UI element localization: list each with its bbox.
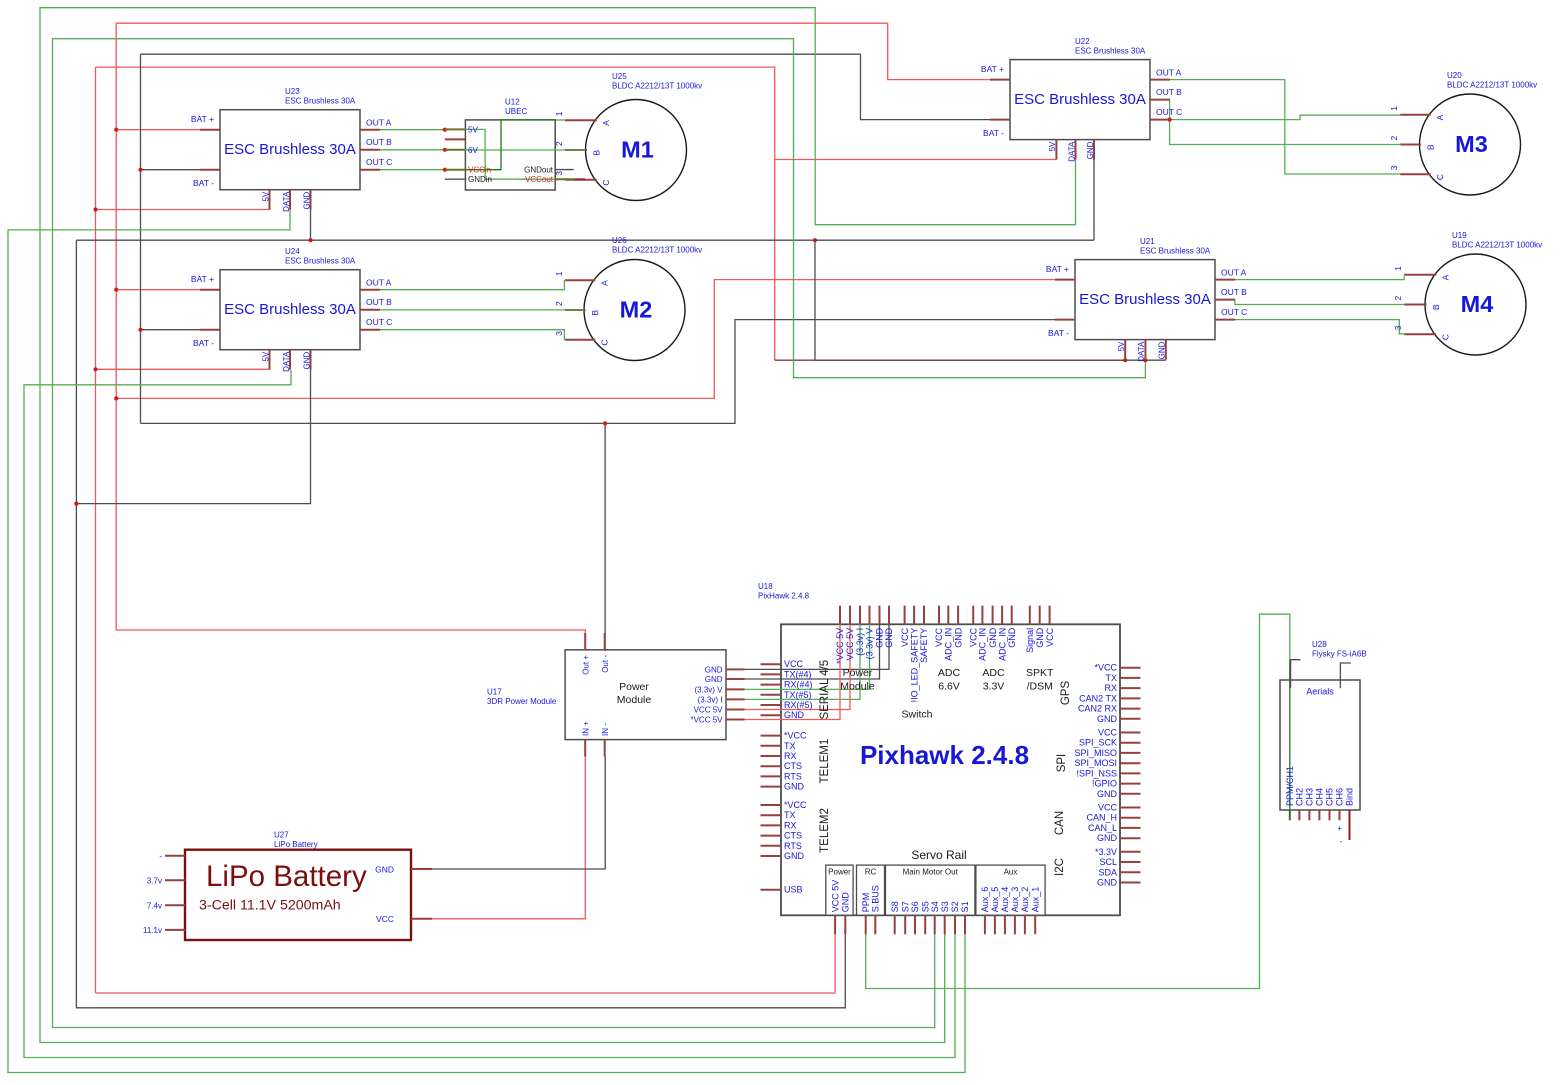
svg-text:S3: S3 bbox=[940, 901, 950, 912]
svg-text:CH2: CH2 bbox=[1295, 788, 1305, 806]
receiver PPM/CH1 pin stub bbox=[1289, 810, 1291, 820]
svg-text:GND: GND bbox=[1035, 627, 1045, 648]
motor M1 pin 3 stub bbox=[565, 179, 597, 181]
motor M4 pin 1 stub bbox=[1404, 274, 1436, 276]
svg-text:A: A bbox=[1441, 274, 1451, 280]
svg-text:CAN_L: CAN_L bbox=[1088, 823, 1117, 833]
svg-text:SAFETY: SAFETY bbox=[919, 628, 929, 663]
svg-text:M2: M2 bbox=[620, 297, 653, 323]
wire U23 OUT B / UBEC 6V to motor M1 pin B (green) bbox=[380, 148, 585, 152]
svg-text:OUT B: OUT B bbox=[1156, 87, 1182, 97]
svg-text:CH4: CH4 bbox=[1315, 788, 1325, 806]
svg-text:*VCC 5V: *VCC 5V bbox=[835, 628, 845, 664]
svg-text:B: B bbox=[1426, 144, 1436, 150]
svg-text:2: 2 bbox=[554, 141, 564, 146]
svg-text:GND: GND bbox=[953, 627, 963, 648]
svg-text:A: A bbox=[1435, 114, 1445, 120]
svg-text:ESC Brushless 30A: ESC Brushless 30A bbox=[285, 257, 356, 266]
wires U21 OUT A/B/C to motor M4 (green) bbox=[1235, 275, 1404, 334]
svg-text:Bind: Bind bbox=[1345, 788, 1355, 806]
svg-text:DATA: DATA bbox=[282, 191, 291, 212]
svg-text:VCC: VCC bbox=[1098, 728, 1118, 738]
svg-text:VCC: VCC bbox=[1098, 803, 1118, 813]
svg-text:3: 3 bbox=[1393, 325, 1403, 330]
svg-text:DATA: DATA bbox=[1137, 341, 1146, 362]
wire UBEC 5V to VCCout (green, inside box) bbox=[465, 129, 555, 179]
svg-text:6V: 6V bbox=[468, 146, 478, 155]
ESC U21 box bbox=[1075, 260, 1215, 340]
svg-text:TX: TX bbox=[1105, 673, 1117, 683]
svg-text:GND: GND bbox=[1158, 341, 1167, 359]
wires U24 OUT A/B/C to motor M2 (green) bbox=[380, 281, 584, 340]
svg-text:!GPIO: !GPIO bbox=[1092, 779, 1117, 789]
svg-text:S4: S4 bbox=[930, 901, 940, 912]
svg-text:SPI_SCK: SPI_SCK bbox=[1079, 738, 1117, 748]
ESC U22 box bbox=[1010, 60, 1150, 140]
svg-text:GPS: GPS bbox=[1060, 681, 1072, 706]
svg-text:3.3V: 3.3V bbox=[983, 681, 1005, 693]
svg-text:Power: Power bbox=[619, 681, 649, 693]
svg-text:UBEC: UBEC bbox=[505, 107, 527, 116]
svg-text:U21: U21 bbox=[1140, 237, 1155, 246]
svg-text:RTS: RTS bbox=[784, 841, 802, 851]
svg-text:Module: Module bbox=[617, 694, 652, 706]
svg-text:GNDout: GNDout bbox=[524, 166, 554, 175]
svg-text:5V: 5V bbox=[261, 191, 270, 201]
wire net PPM Pixhawk to receiver PPM/CH1 (green) bbox=[866, 614, 1290, 988]
3DR Power Module U17 box bbox=[565, 650, 726, 740]
svg-text:VCCin: VCCin bbox=[468, 166, 491, 175]
svg-text:A: A bbox=[601, 120, 611, 126]
motor M3 pin 2 stub bbox=[1400, 144, 1421, 146]
svg-text:U25: U25 bbox=[612, 72, 627, 81]
svg-text:-: - bbox=[1339, 837, 1342, 846]
svg-text:SPI_MISO: SPI_MISO bbox=[1074, 748, 1117, 758]
wire net S4 Pixhawk to U21 DATA (green) bbox=[53, 39, 1148, 1028]
svg-text:OUT B: OUT B bbox=[366, 137, 392, 147]
svg-text:*VCC 5V: *VCC 5V bbox=[690, 716, 723, 725]
svg-text:S5: S5 bbox=[920, 901, 930, 912]
svg-text:OUT A: OUT A bbox=[366, 278, 392, 288]
svg-text:C: C bbox=[1441, 334, 1451, 340]
svg-text:ADC_IN: ADC_IN bbox=[978, 628, 988, 661]
svg-text:Flysky FS-iA6B: Flysky FS-iA6B bbox=[1312, 650, 1367, 659]
svg-text:U26: U26 bbox=[612, 236, 627, 245]
svg-text:Out +: Out + bbox=[581, 655, 590, 675]
svg-text:ADC_IN: ADC_IN bbox=[997, 628, 1007, 661]
svg-text:IN -: IN - bbox=[601, 723, 610, 736]
svg-text:GND: GND bbox=[1097, 833, 1118, 843]
svg-text:TX(#5): TX(#5) bbox=[784, 690, 812, 700]
wire net BAT+ (battery positive, red) bbox=[114, 23, 1055, 651]
svg-text:M4: M4 bbox=[1461, 291, 1494, 317]
svg-text:GND: GND bbox=[302, 191, 311, 209]
svg-text:ADC_IN: ADC_IN bbox=[944, 628, 954, 661]
svg-text:VCCout: VCCout bbox=[525, 175, 554, 184]
svg-text:PPM: PPM bbox=[861, 893, 871, 913]
svg-text:VCC 5V: VCC 5V bbox=[830, 880, 840, 913]
svg-text:BAT +: BAT + bbox=[191, 274, 214, 284]
svg-text:GND: GND bbox=[302, 351, 311, 369]
svg-text:1: 1 bbox=[1389, 106, 1399, 111]
svg-text:OUT C: OUT C bbox=[1221, 307, 1247, 317]
svg-text:BAT +: BAT + bbox=[1046, 264, 1069, 274]
wires U22 OUT A/B/C to motor M3 (green) bbox=[1168, 80, 1401, 174]
svg-text:!IO_LED_SAFETY: !IO_LED_SAFETY bbox=[909, 628, 919, 703]
svg-text:CH3: CH3 bbox=[1305, 788, 1315, 806]
svg-text:VCC: VCC bbox=[1045, 627, 1055, 647]
svg-text:S8: S8 bbox=[890, 901, 900, 912]
svg-text:RX: RX bbox=[1104, 683, 1117, 693]
svg-text:C: C bbox=[601, 180, 611, 186]
svg-text:BLDC A2212/13T 1000kv: BLDC A2212/13T 1000kv bbox=[612, 82, 702, 91]
svg-text:GND: GND bbox=[1097, 714, 1118, 724]
svg-text:ADC: ADC bbox=[982, 667, 1005, 679]
svg-text:SPI: SPI bbox=[1056, 754, 1068, 773]
svg-text:*3.3V: *3.3V bbox=[1095, 847, 1117, 857]
wire net S1 Pixhawk to U23 DATA (green) bbox=[8, 210, 965, 1073]
svg-text:BAT -: BAT - bbox=[193, 178, 214, 188]
svg-text:OUT A: OUT A bbox=[366, 118, 392, 128]
svg-text:OUT A: OUT A bbox=[1221, 268, 1247, 278]
svg-text:BAT -: BAT - bbox=[1048, 328, 1069, 338]
svg-text:TELEM2: TELEM2 bbox=[819, 808, 831, 853]
motor M2 pin 2 stub bbox=[565, 309, 586, 311]
ESC U21 pin stubs bbox=[1055, 279, 1075, 281]
svg-text:3DR Power Module: 3DR Power Module bbox=[487, 697, 557, 706]
motor M1 pin 2 stub bbox=[565, 149, 587, 151]
svg-text:Signal: Signal bbox=[1025, 628, 1035, 653]
svg-text:PixHawk 2.4.8: PixHawk 2.4.8 bbox=[758, 592, 810, 601]
svg-text:1: 1 bbox=[554, 271, 564, 276]
svg-text:+: + bbox=[1337, 824, 1342, 833]
svg-text:PPM/CH1: PPM/CH1 bbox=[1285, 766, 1295, 806]
motor M4 (U19) body bbox=[1425, 254, 1526, 355]
svg-text:VCC 5V: VCC 5V bbox=[845, 628, 855, 661]
svg-text:Servo Rail: Servo Rail bbox=[911, 848, 966, 862]
svg-text:U20: U20 bbox=[1447, 71, 1462, 80]
svg-text:TELEM1: TELEM1 bbox=[819, 739, 831, 784]
motor M3 pin 1 stub bbox=[1400, 114, 1431, 116]
svg-text:*VCC: *VCC bbox=[1094, 663, 1117, 673]
svg-text:VCC: VCC bbox=[900, 627, 910, 647]
svg-text:U27: U27 bbox=[274, 831, 289, 840]
svg-text:OUT C: OUT C bbox=[1156, 107, 1182, 117]
wire battery VCC to power module IN+ (red) bbox=[432, 756, 585, 919]
svg-text:DATA: DATA bbox=[1067, 141, 1076, 162]
svg-text:Pixhawk 2.4.8: Pixhawk 2.4.8 bbox=[860, 740, 1029, 770]
svg-text:BLDC A2212/13T 1000kv: BLDC A2212/13T 1000kv bbox=[1447, 81, 1537, 90]
motor M3 pin 3 stub bbox=[1400, 173, 1431, 175]
svg-text:ESC Brushless 30A: ESC Brushless 30A bbox=[1140, 247, 1211, 256]
receiver antenna right bbox=[1340, 663, 1350, 688]
svg-text:ESC Brushless 30A: ESC Brushless 30A bbox=[285, 97, 356, 106]
svg-text:ESC Brushless 30A: ESC Brushless 30A bbox=[1079, 291, 1211, 308]
svg-text:OUT C: OUT C bbox=[366, 317, 392, 327]
motor M3 (U20) body bbox=[1420, 94, 1521, 195]
svg-text:ESC Brushless 30A: ESC Brushless 30A bbox=[1014, 91, 1146, 108]
svg-text:GND: GND bbox=[1097, 878, 1118, 888]
svg-text:11.1v: 11.1v bbox=[143, 926, 162, 935]
svg-text:SPKT: SPKT bbox=[1026, 667, 1054, 679]
svg-text:RTS: RTS bbox=[784, 771, 802, 781]
svg-text:TX: TX bbox=[784, 810, 796, 820]
svg-text:GND: GND bbox=[1086, 141, 1095, 159]
svg-text:CH6: CH6 bbox=[1335, 788, 1345, 806]
svg-text:C: C bbox=[600, 340, 610, 346]
svg-text:BAT +: BAT + bbox=[981, 64, 1004, 74]
svg-text:Aux_4: Aux_4 bbox=[1000, 887, 1010, 913]
Pixhawk left pin stubs bbox=[761, 664, 782, 890]
svg-text:GND: GND bbox=[375, 865, 394, 875]
svg-text:RC: RC bbox=[865, 868, 877, 877]
Pixhawk bottom pin stubs bbox=[835, 915, 1035, 934]
wire U23 OUT A to UBEC 5V (green) bbox=[380, 128, 447, 132]
svg-text:Aux_5: Aux_5 bbox=[990, 887, 1000, 913]
svg-text:S1: S1 bbox=[960, 901, 970, 912]
wire battery GND to power module IN- (dark gray) bbox=[432, 756, 605, 869]
ESC U22 pin stubs bbox=[990, 79, 1010, 81]
receiver Bind pin wire (dark red) bbox=[1349, 810, 1351, 840]
svg-text:Power: Power bbox=[828, 868, 851, 877]
svg-text:5V: 5V bbox=[1117, 341, 1126, 351]
svg-text:GND: GND bbox=[841, 892, 851, 913]
wire net S2 Pixhawk to U24 DATA (green) bbox=[24, 370, 955, 1058]
svg-text:Main Motor Out: Main Motor Out bbox=[903, 868, 959, 877]
svg-text:-: - bbox=[159, 852, 162, 861]
svg-text:Out -: Out - bbox=[601, 655, 610, 673]
Pixhawk servo rail sub-box Power bbox=[826, 865, 853, 915]
svg-text:A: A bbox=[600, 280, 610, 286]
svg-text:U19: U19 bbox=[1452, 231, 1467, 240]
svg-text:Aux_1: Aux_1 bbox=[1030, 887, 1040, 913]
svg-text:(3.3v) V: (3.3v) V bbox=[865, 628, 875, 660]
wire net ESC 5V (red) bbox=[93, 67, 1056, 993]
svg-text:CAN: CAN bbox=[1054, 811, 1066, 835]
svg-text:I2C: I2C bbox=[1054, 858, 1066, 876]
svg-text:3: 3 bbox=[554, 171, 564, 176]
svg-text:GNDin: GNDin bbox=[468, 175, 492, 184]
svg-text:GND: GND bbox=[884, 627, 894, 648]
svg-text:OUT A: OUT A bbox=[1156, 68, 1182, 78]
svg-text:ESC Brushless 30A: ESC Brushless 30A bbox=[224, 141, 356, 158]
svg-text:BAT -: BAT - bbox=[983, 128, 1004, 138]
svg-text:OUT B: OUT B bbox=[1221, 287, 1247, 297]
svg-text:6.6V: 6.6V bbox=[938, 681, 960, 693]
svg-text:USB: USB bbox=[784, 885, 803, 895]
svg-text:(3.3v) I: (3.3v) I bbox=[855, 628, 865, 656]
svg-text:Aux_6: Aux_6 bbox=[980, 887, 990, 913]
LiPo Battery pin stubs bbox=[165, 856, 432, 930]
svg-text:S6: S6 bbox=[910, 901, 920, 912]
svg-text:CAN2 TX: CAN2 TX bbox=[1079, 693, 1117, 703]
wire net BAT- (dark gray) bbox=[138, 54, 1055, 651]
LiPo Battery U27 box bbox=[185, 850, 411, 940]
wire UBEC VCCout to motor M1 pin C (dark red) bbox=[574, 178, 585, 180]
motor M4 pin 3 stub bbox=[1404, 333, 1436, 335]
svg-text:GND: GND bbox=[784, 782, 805, 792]
svg-text:BAT -: BAT - bbox=[193, 338, 214, 348]
svg-text:OUT C: OUT C bbox=[366, 157, 392, 167]
svg-text:GND: GND bbox=[784, 710, 805, 720]
Pixhawk servo rail sub-box Aux bbox=[976, 865, 1045, 915]
svg-text:LiPo Battery: LiPo Battery bbox=[206, 860, 367, 893]
svg-text:U24: U24 bbox=[285, 247, 300, 256]
svg-text:Aux: Aux bbox=[1004, 868, 1018, 877]
Flysky receiver U28 box bbox=[1280, 680, 1360, 810]
3DR Power Module pin stubs bbox=[585, 633, 744, 757]
svg-text:SPI_MOSI: SPI_MOSI bbox=[1074, 758, 1117, 768]
svg-text:3-Cell 11.1V 5200mAh: 3-Cell 11.1V 5200mAh bbox=[199, 898, 341, 914]
svg-text:SERIAL 4/5: SERIAL 4/5 bbox=[819, 660, 831, 720]
svg-text:GND: GND bbox=[875, 627, 885, 648]
svg-text:S7: S7 bbox=[900, 901, 910, 912]
wires power module to Pixhawk power pins bbox=[745, 606, 889, 720]
svg-text:GND: GND bbox=[705, 675, 723, 684]
svg-text:GND: GND bbox=[784, 851, 805, 861]
svg-text:U12: U12 bbox=[505, 98, 520, 107]
svg-text:SCL: SCL bbox=[1099, 857, 1117, 867]
svg-text:ADC: ADC bbox=[938, 667, 961, 679]
svg-text:U22: U22 bbox=[1075, 37, 1090, 46]
receiver bottom pin stubs bbox=[1299, 810, 1339, 820]
svg-text:U17: U17 bbox=[487, 688, 502, 697]
UBEC pin stubs bbox=[445, 128, 466, 130]
Pixhawk top pin stubs bbox=[840, 606, 1050, 625]
motor M2 pin 3 stub bbox=[565, 339, 595, 341]
svg-text:B: B bbox=[592, 150, 602, 156]
motor M2 (U26) body bbox=[584, 260, 685, 361]
Pixhawk servo rail sub-box RC bbox=[857, 865, 885, 915]
svg-text:DATA: DATA bbox=[282, 351, 291, 372]
svg-text:*VCC: *VCC bbox=[784, 800, 807, 810]
svg-text:Aux_3: Aux_3 bbox=[1010, 887, 1020, 913]
svg-text:SDA: SDA bbox=[1098, 867, 1117, 877]
svg-text:B: B bbox=[1431, 304, 1441, 310]
motor M4 pin 2 stub bbox=[1404, 304, 1426, 306]
svg-text:OUT B: OUT B bbox=[366, 297, 392, 307]
svg-text:3.7v: 3.7v bbox=[147, 876, 162, 885]
svg-text:3: 3 bbox=[1389, 165, 1399, 170]
motor M1 (U25) body bbox=[586, 100, 687, 201]
svg-text:S2: S2 bbox=[950, 901, 960, 912]
svg-text:CH5: CH5 bbox=[1325, 788, 1335, 806]
svg-text:(3.3v) V: (3.3v) V bbox=[694, 685, 723, 694]
Pixhawk servo rail sub-box Main Motor Out bbox=[886, 865, 975, 915]
svg-text:RX(#5): RX(#5) bbox=[784, 700, 813, 710]
svg-text:TX(#4): TX(#4) bbox=[784, 669, 812, 679]
svg-text:RX: RX bbox=[784, 820, 797, 830]
receiver antenna left bbox=[1291, 660, 1301, 689]
svg-text:2: 2 bbox=[554, 301, 564, 306]
svg-text:3: 3 bbox=[554, 331, 564, 336]
svg-text:CAN2 RX: CAN2 RX bbox=[1078, 704, 1117, 714]
svg-text:IN +: IN + bbox=[581, 721, 590, 736]
svg-text:GND: GND bbox=[1097, 789, 1118, 799]
svg-text:7.4v: 7.4v bbox=[147, 901, 162, 910]
svg-text:C: C bbox=[1435, 174, 1445, 180]
motor M2 pin 1 stub bbox=[565, 279, 595, 281]
svg-text:5V: 5V bbox=[261, 351, 270, 361]
svg-text:GND: GND bbox=[705, 665, 723, 674]
svg-text:BLDC A2212/13T 1000kv: BLDC A2212/13T 1000kv bbox=[612, 246, 702, 255]
motor M1 pin 1 stub bbox=[565, 119, 597, 121]
svg-text:VCC: VCC bbox=[376, 914, 394, 924]
svg-text:RX(#4): RX(#4) bbox=[784, 680, 813, 690]
wire net GND rail (dark gray) bbox=[74, 160, 1166, 1008]
wire UBEC VCCin to motor M1 pin A (dark green) bbox=[465, 120, 565, 170]
ESC U24 box bbox=[220, 270, 360, 350]
svg-text:Power: Power bbox=[843, 667, 873, 679]
svg-text:!SPI_NSS: !SPI_NSS bbox=[1076, 768, 1117, 778]
svg-text:*VCC: *VCC bbox=[784, 731, 807, 741]
svg-text:Aux_2: Aux_2 bbox=[1020, 887, 1030, 913]
svg-text:GND: GND bbox=[1007, 627, 1017, 648]
svg-text:CTS: CTS bbox=[784, 831, 802, 841]
svg-text:Aerials: Aerials bbox=[1306, 687, 1334, 697]
svg-text:VCC 5V: VCC 5V bbox=[694, 706, 724, 715]
wire U23 OUT C to UBEC VCCin (green) bbox=[380, 168, 447, 172]
svg-text:1: 1 bbox=[1393, 266, 1403, 271]
svg-text:2: 2 bbox=[1389, 136, 1399, 141]
svg-text:U18: U18 bbox=[758, 582, 773, 591]
svg-text:/DSM: /DSM bbox=[1027, 681, 1053, 693]
ESC U24 pin stubs bbox=[200, 289, 220, 291]
Pixhawk U18 box bbox=[781, 624, 1120, 915]
svg-text:U28: U28 bbox=[1312, 640, 1327, 649]
svg-text:CTS: CTS bbox=[784, 761, 802, 771]
svg-text:TX: TX bbox=[784, 741, 796, 751]
svg-text:VCC: VCC bbox=[784, 659, 804, 669]
Pixhawk right pin stubs bbox=[1120, 668, 1141, 883]
svg-text:Module: Module bbox=[840, 681, 875, 693]
svg-text:(3.3v) I: (3.3v) I bbox=[698, 695, 723, 704]
svg-text:1: 1 bbox=[554, 111, 564, 116]
svg-text:LiPo Battery: LiPo Battery bbox=[274, 840, 318, 849]
UBEC U12 box bbox=[465, 120, 555, 190]
svg-text:ESC Brushless 30A: ESC Brushless 30A bbox=[1075, 47, 1146, 56]
svg-text:RX: RX bbox=[784, 751, 797, 761]
wire net S3 Pixhawk to U22 DATA (green) bbox=[40, 8, 1076, 1043]
svg-text:ESC Brushless 30A: ESC Brushless 30A bbox=[224, 301, 356, 318]
svg-text:B: B bbox=[590, 310, 600, 316]
svg-text:GND: GND bbox=[988, 627, 998, 648]
svg-text:CAN_H: CAN_H bbox=[1086, 813, 1117, 823]
svg-text:M3: M3 bbox=[1455, 131, 1488, 157]
svg-text:BLDC A2212/13T 1000kv: BLDC A2212/13T 1000kv bbox=[1452, 241, 1542, 250]
svg-text:BAT +: BAT + bbox=[191, 114, 214, 124]
svg-text:5V: 5V bbox=[1048, 141, 1057, 151]
svg-text:5V: 5V bbox=[468, 125, 478, 134]
svg-text:U23: U23 bbox=[285, 87, 300, 96]
svg-text:Switch: Switch bbox=[902, 709, 933, 721]
svg-text:M1: M1 bbox=[621, 137, 654, 163]
svg-text:S.BUS: S.BUS bbox=[871, 885, 881, 912]
svg-text:2: 2 bbox=[1393, 296, 1403, 301]
ESC U23 pin stubs bbox=[200, 129, 220, 131]
Pixhawk pin labels bbox=[784, 627, 1118, 912]
ESC U23 box bbox=[220, 110, 360, 190]
